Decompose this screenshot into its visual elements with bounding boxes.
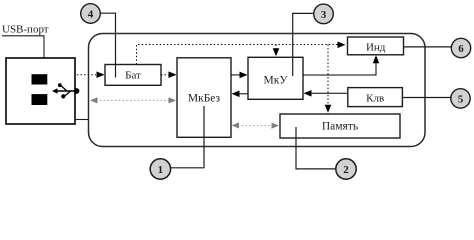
wire МкУ to Инд (right then up) arrow: [303, 55, 379, 75]
svg-text:Память: Память: [322, 120, 358, 132]
svg-text:Бат: Бат: [125, 69, 141, 81]
USB connector box: [6, 58, 75, 124]
svg-text:Клв: Клв: [366, 93, 384, 105]
block Клв: [348, 88, 403, 107]
wire МкБез to МкУ arrow: [231, 72, 248, 79]
wire МкУ to МкБез arrow: [232, 91, 249, 98]
callout circle 1: [150, 106, 204, 179]
wire Бат to МкБез dotted arrow: [161, 71, 177, 78]
block Бат: [105, 65, 161, 86]
USB trident symbol: [52, 83, 79, 98]
USB contact pad 1: [32, 74, 48, 84]
callout circle 3: [293, 4, 334, 76]
wire dotted Бат top to Инд: [137, 42, 346, 65]
svg-text:МкБез: МкБез: [188, 93, 221, 105]
block МкБез: [177, 58, 231, 138]
svg-text:5: 5: [458, 93, 464, 105]
wire gray dotted double arrow МкБез to Память: [232, 122, 280, 128]
svg-text:3: 3: [321, 9, 327, 21]
wire gray dotted double arrow USB to МкБез: [90, 97, 176, 103]
svg-text:USB-порт: USB-порт: [2, 23, 49, 35]
label USB-порт: [2, 23, 49, 58]
svg-text:МкУ: МкУ: [264, 74, 289, 86]
wire dotted branch down into Память: [325, 45, 332, 113]
wire USB box to device body: [75, 119, 89, 121]
callout circle 4: [81, 4, 116, 78]
block Инд: [348, 37, 404, 55]
callout circle 6: [404, 38, 471, 57]
wire USB to Бат dotted arrow: [77, 71, 105, 78]
callout circle 2: [296, 127, 356, 179]
wire Клв to МкУ arrow: [304, 90, 348, 97]
svg-text:6: 6: [458, 43, 464, 55]
device body rounded rectangle: [89, 34, 426, 147]
block Память: [280, 114, 400, 138]
svg-text:4: 4: [88, 9, 94, 21]
USB contact pad 2: [32, 94, 48, 105]
wire dotted branch down into МкУ: [273, 45, 280, 57]
block МкУ: [248, 57, 303, 99]
callout circle 5: [402, 89, 470, 108]
svg-text:1: 1: [158, 164, 164, 176]
svg-text:Инд: Инд: [366, 42, 386, 54]
svg-text:2: 2: [343, 164, 349, 176]
